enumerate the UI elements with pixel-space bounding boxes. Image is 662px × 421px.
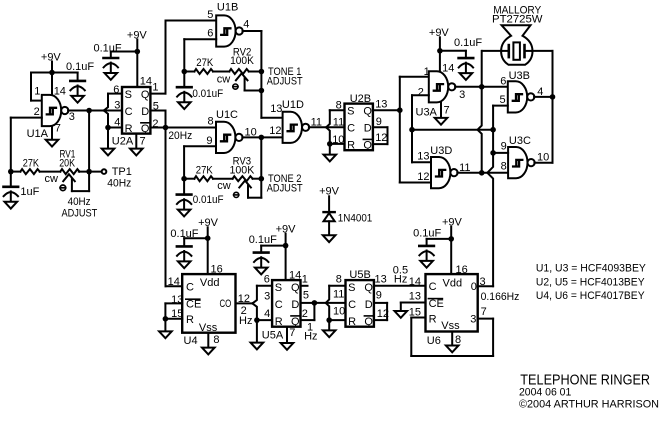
power +9V (U6) (442, 216, 463, 239)
svg-text:100K: 100K (230, 164, 255, 176)
svg-text:S: S (348, 282, 355, 294)
svg-text:0.01uF: 0.01uF (192, 88, 223, 100)
svg-text:D: D (141, 106, 149, 118)
wire U1C output pin10 to U1D pin12 (242, 136, 282, 138)
svg-text:C: C (275, 299, 283, 311)
svg-text:100K: 100K (230, 55, 254, 67)
svg-text:1: 1 (424, 66, 430, 78)
label U2B pin numbers (332, 93, 387, 146)
label TONE 1 ADJUST (267, 66, 303, 88)
wire U3C output pin10 (534, 162, 552, 164)
svg-text:Q: Q (363, 140, 372, 152)
capacitor 0.1uF (U6 supply) (413, 228, 441, 268)
svg-text:13: 13 (375, 274, 387, 286)
svg-text:11: 11 (333, 116, 344, 128)
svg-text:0.1uF: 0.1uF (66, 61, 94, 73)
svg-text:0.1uF: 0.1uF (94, 42, 122, 54)
svg-text:R: R (429, 314, 437, 326)
svg-text:14: 14 (442, 63, 454, 75)
label U1B pins (207, 1, 249, 39)
svg-text:C: C (125, 106, 133, 118)
svg-text:16: 16 (211, 264, 223, 276)
svg-text:20Hz: 20Hz (168, 130, 192, 142)
node +9V junction at U3A (437, 48, 443, 54)
svg-text:1: 1 (152, 81, 158, 93)
svg-text:0.1uF: 0.1uF (454, 37, 482, 49)
svg-text:U2B: U2B (350, 93, 371, 105)
wire U2B D to Qbar tie (373, 127, 388, 144)
node piezo left bottom junction (479, 170, 485, 176)
svg-text:3: 3 (69, 111, 75, 123)
wire U6 output 0 (pin3) 0.166Hz (478, 285, 493, 287)
flip-flop U2A (4013 half) (122, 87, 150, 135)
svg-text:C: C (347, 123, 355, 135)
wire U5A clock fork (S C R tie) (252, 286, 272, 320)
node U5A D junction 1Hz (312, 300, 318, 306)
wire 1Hz to U5B clock (314, 302, 345, 304)
svg-text:U2, U5 = HCF4013BEY: U2, U5 = HCF4013BEY (536, 277, 645, 289)
svg-text:8: 8 (336, 99, 342, 111)
wire U6 output 3 (pin7) reset loop (411, 318, 493, 357)
svg-text:ADJUST: ADJUST (62, 207, 98, 219)
svg-text:2: 2 (418, 86, 424, 98)
capacitor 0.01uF (tone1) (177, 72, 223, 110)
wire piezo right lead (532, 51, 553, 163)
node RV2 wiper junction (259, 88, 265, 94)
nand gate U3A (429, 71, 456, 102)
transducer MALLORY PT2725W (piezo horn) (492, 4, 543, 64)
ground U2B set-reset (324, 144, 337, 162)
svg-text:U3A: U3A (416, 107, 438, 119)
svg-text:CE: CE (429, 298, 444, 310)
wire U4 pin16 vdd (207, 238, 209, 274)
wire U3A pin2 input (412, 95, 429, 162)
svg-text:U1A: U1A (27, 128, 49, 140)
wire U5A D to Qbar tie (301, 303, 315, 320)
svg-text:R: R (275, 316, 283, 328)
ground U1A pin7 (46, 126, 59, 146)
svg-text:5: 5 (207, 9, 213, 21)
node tone2 out junction (259, 135, 265, 141)
capacitor 0.1uF (U2A supply) (94, 42, 122, 80)
svg-text:TP1: TP1 (112, 166, 132, 178)
svg-text:14: 14 (168, 276, 180, 288)
svg-text:R: R (125, 123, 133, 135)
wire U4 CO output 2Hz (236, 302, 253, 304)
svg-text:U1D: U1D (282, 99, 304, 111)
wire U2A clock fork (S C R tie) (104, 94, 122, 128)
label U1D pins (269, 99, 322, 137)
node crossnet junction (490, 127, 496, 133)
svg-text:13: 13 (375, 99, 387, 111)
svg-text:Q: Q (141, 89, 150, 101)
svg-text:0.1uF: 0.1uF (249, 234, 277, 246)
node piezo right junction (550, 94, 556, 100)
ground U4 pin8 (202, 333, 215, 355)
label U1A pins (27, 85, 75, 140)
svg-text:Q: Q (364, 282, 373, 294)
wire rail to 0.1uF (U2A) (111, 51, 138, 53)
node U5A R ground junction (254, 317, 260, 323)
label U5B pin numbers (333, 269, 389, 320)
node +9V junction at U1A (49, 70, 55, 76)
wire piezo left vertical with crossover jog (478, 51, 482, 173)
node U2B Q junction (397, 107, 403, 113)
svg-text:27K: 27K (196, 57, 214, 69)
svg-text:5: 5 (500, 94, 506, 106)
wire U2A D to Qbar tie (150, 111, 165, 128)
wire rail to 0.1uF (U4) (184, 237, 208, 239)
svg-text:CE: CE (186, 299, 201, 311)
op... nand gate U1A (Schmitt NAND) (42, 95, 69, 126)
svg-text:U3D: U3D (430, 145, 452, 157)
svg-text:1: 1 (34, 85, 40, 97)
wire U5B D to Qbar tie (374, 303, 387, 320)
svg-text:U2A: U2A (112, 136, 134, 148)
svg-text:Vdd: Vdd (443, 278, 463, 290)
svg-text:U4: U4 (184, 335, 198, 347)
svg-text:14: 14 (54, 85, 66, 97)
flip-flop U5A (4013 half) (272, 280, 300, 328)
svg-text:6: 6 (207, 28, 213, 40)
ground U5A pin7 (281, 327, 294, 350)
power +9V (U5A) (276, 223, 297, 245)
nand gate U3C (508, 147, 535, 178)
capacitor 0.01uF (tone2) (177, 179, 224, 217)
svg-text:10: 10 (332, 134, 344, 146)
svg-text:0.1uF: 0.1uF (413, 228, 441, 240)
wire U6 CE to ground (401, 303, 426, 312)
svg-text:U1C: U1C (216, 109, 238, 121)
resistor 27K (tone1) (184, 57, 229, 74)
svg-text:40Hz: 40Hz (107, 178, 131, 190)
capacitor 0.1uF (U1A supply) (66, 61, 94, 103)
wire rail to 0.1uF (U5A) (261, 245, 285, 247)
wire U5B Q 0.5Hz to U6 clock (374, 285, 426, 287)
potentiometer RV2 100K (217, 47, 262, 91)
wire U2B clock fork (S C R tie) (326, 110, 344, 144)
svg-text:U3C: U3C (509, 135, 531, 147)
node U4 R junction (163, 316, 169, 322)
ground U3A pin7 (435, 102, 448, 124)
svg-text:Q: Q (141, 123, 150, 135)
wire U4 CE R tie to ground (165, 303, 182, 331)
wire U1B output pin4 (243, 31, 283, 118)
wire rail to 0.1uF (U6) (427, 238, 452, 240)
capacitor 0.1uF (U3A supply) (454, 37, 482, 80)
wire U2A pin14 vdd (136, 52, 138, 88)
wire +9V rail to U1A pin1 loop (31, 73, 78, 101)
svg-text:Vss: Vss (441, 320, 460, 332)
label 1 Hz (304, 322, 317, 343)
svg-text:10: 10 (537, 151, 549, 163)
ground U6 CE (395, 311, 408, 318)
potentiometer RV3 100K (217, 155, 261, 197)
wire U2A Q to U1B pin5 (150, 21, 216, 94)
wire U3D output pin11 to U3C pin8 (457, 172, 508, 174)
svg-text:D: D (365, 299, 373, 311)
nand gate U1C (216, 122, 243, 153)
flip-flop U2B (4013 half) (345, 104, 373, 152)
svg-text:12: 12 (417, 171, 429, 183)
svg-text:13: 13 (270, 103, 282, 115)
svg-text:0.1uF: 0.1uF (170, 228, 198, 240)
svg-text:16: 16 (456, 264, 468, 276)
ground U2A set-reset (102, 128, 115, 156)
svg-text:cw: cw (217, 73, 231, 85)
label U3A pins (416, 63, 466, 119)
node U2A Qbar junction 20Hz (163, 125, 169, 131)
capacitor 0.1uF (U4 supply) (170, 228, 198, 268)
label TONE 2 ADJUST (267, 173, 303, 195)
svg-text:R: R (186, 314, 194, 326)
wire 20Hz down to U4 clock (166, 128, 183, 287)
svg-text:12: 12 (375, 132, 387, 144)
ground U5B set-reset (323, 320, 336, 337)
resistor 27K (tone2) (184, 164, 233, 181)
svg-text:U6: U6 (427, 335, 441, 347)
svg-text:U1, U3 = HCF4093BEY: U1, U3 = HCF4093BEY (536, 263, 647, 275)
svg-text:R: R (348, 316, 356, 328)
svg-text:13: 13 (417, 151, 429, 163)
node U5B R ground junction (326, 317, 332, 323)
ground U6 pin8 (446, 332, 459, 353)
svg-text:0.166Hz: 0.166Hz (481, 291, 520, 303)
svg-text:3: 3 (459, 89, 465, 101)
node RV2 top junction (259, 69, 265, 75)
svg-text:D: D (291, 299, 299, 311)
svg-text:Hz: Hz (239, 315, 252, 327)
svg-text:Q: Q (291, 316, 300, 328)
node +9V junction at U4 (205, 235, 211, 241)
potentiometer RV1 20K (45, 148, 102, 191)
svg-text:8: 8 (208, 115, 214, 127)
counter U4 (4017) (182, 274, 235, 334)
svg-text:9: 9 (206, 135, 212, 147)
label U2A pin numbers (112, 75, 159, 147)
svg-text:D: D (364, 123, 372, 135)
label U6 pin numbers (409, 264, 487, 347)
svg-text:2004 06 01: 2004 06 01 (519, 386, 571, 398)
label 2 Hz (239, 305, 252, 327)
svg-text:U1B: U1B (217, 1, 238, 13)
ground U4 CE R (159, 331, 172, 338)
svg-text:5: 5 (303, 290, 309, 302)
node tone1 RC junction (182, 69, 188, 75)
ground U5A set-reset (251, 320, 264, 349)
diode 1N4001 (324, 212, 373, 235)
svg-text:14: 14 (140, 75, 152, 87)
power +9V (U3A) (429, 27, 450, 51)
node +9V junction at U2A (135, 49, 141, 55)
wire netB vertical with crossover jog (487, 106, 493, 287)
wire piezo left lead (482, 50, 501, 52)
wire rail to 0.1uF (U3A) (440, 50, 466, 52)
nand gate U3B (508, 81, 535, 112)
node piezo left junction (479, 84, 485, 90)
label U3C pins (501, 135, 550, 173)
wire U5A pin14 vdd (285, 246, 287, 281)
resistor 27K (U1A) (11, 157, 61, 174)
svg-text:2: 2 (34, 106, 40, 118)
svg-text:40Hz: 40Hz (68, 196, 91, 208)
svg-text:7: 7 (140, 135, 146, 147)
wire U3B pin5 input (493, 105, 508, 107)
svg-text:Q: Q (364, 316, 373, 328)
svg-text:U5B: U5B (349, 269, 370, 281)
power +9V (diode) (319, 186, 340, 212)
svg-text:1: 1 (302, 274, 308, 286)
ground diode (323, 235, 336, 242)
node U2A R ground junction (105, 125, 111, 131)
svg-text:8: 8 (336, 274, 342, 286)
svg-text:27K: 27K (23, 157, 40, 169)
label U3D pins (417, 145, 470, 183)
svg-text:Q: Q (363, 106, 372, 118)
node U3A pin2 branch (409, 127, 415, 133)
wire feedback vertical to RV1 (88, 111, 90, 172)
svg-text:9: 9 (376, 116, 382, 128)
node U1A output branch (86, 108, 92, 114)
wire U1A pin2 input (11, 117, 42, 119)
svg-text:0: 0 (471, 281, 477, 293)
svg-text:6: 6 (264, 274, 270, 286)
svg-text:4: 4 (243, 18, 249, 30)
svg-text:8: 8 (455, 334, 461, 346)
counter U6 (4017) (426, 274, 478, 332)
svg-text:20K: 20K (59, 158, 75, 170)
svg-text:8: 8 (501, 161, 507, 173)
node +9V junction at U6 (448, 236, 454, 242)
svg-text:2: 2 (302, 308, 308, 320)
node RV1 wiper junction (86, 169, 92, 175)
label U1C pins (206, 109, 256, 147)
svg-text:S: S (125, 89, 132, 101)
wire U1D output pin11 to U2B clock (309, 126, 345, 128)
svg-text:1N4001: 1N4001 (338, 213, 373, 225)
svg-text:9: 9 (501, 140, 507, 152)
svg-text:8: 8 (213, 334, 219, 346)
wire U5B clock fork (S C R tie) (326, 286, 346, 320)
wire pin2 down to RC node (10, 118, 12, 172)
wire U3A pin14 vdd (439, 51, 441, 71)
svg-text:U4, U6 = HCF4017BEY: U4, U6 = HCF4017BEY (536, 290, 645, 302)
svg-text:C: C (429, 281, 437, 293)
node U3C pin9 junction (490, 150, 496, 156)
svg-text:ADJUST: ADJUST (267, 182, 303, 194)
svg-text:cw: cw (217, 180, 231, 192)
wire U3A output pin3 to U3B pin6 (455, 86, 508, 88)
label U3B pins (500, 70, 544, 106)
capacitor 1uF (U1A input) (4, 172, 40, 209)
ground U2A pin7 (130, 134, 143, 156)
test point TP1 (102, 166, 132, 189)
wire U3C pin9 input (493, 152, 508, 154)
svg-text:1uF: 1uF (20, 186, 39, 198)
svg-text:C: C (348, 299, 356, 311)
svg-text:Hz: Hz (304, 331, 317, 343)
wire U1A output pin3 (68, 110, 122, 112)
node U2B R ground junction (327, 141, 333, 147)
svg-text:S: S (275, 282, 282, 294)
label 0.5 Hz (393, 265, 408, 286)
svg-text:0.01uF: 0.01uF (193, 194, 224, 206)
nand gate U1D (283, 112, 310, 143)
svg-text:PT2725W: PT2725W (492, 13, 543, 25)
svg-text:13: 13 (409, 291, 421, 303)
svg-text:©2004 ARTHUR HARRISON: ©2004 ARTHUR HARRISON (519, 398, 659, 410)
nand gate U1B (216, 15, 243, 46)
svg-text:9: 9 (376, 290, 382, 302)
svg-text:27K: 27K (196, 164, 214, 176)
wire U1C pin9 feedback (184, 146, 216, 178)
svg-text:CO: CO (220, 298, 232, 310)
svg-text:+9V: +9V (442, 216, 463, 228)
svg-text:10: 10 (333, 306, 345, 318)
svg-text:3: 3 (264, 291, 270, 303)
node tone2 RC junction (181, 176, 187, 182)
svg-text:7: 7 (55, 123, 61, 135)
node RV3 top junction (259, 176, 265, 182)
svg-text:14: 14 (409, 276, 421, 288)
svg-text:C: C (186, 282, 194, 294)
wire RV3 vertical (260, 137, 262, 197)
svg-text:Vdd: Vdd (200, 277, 220, 289)
wire U3D pin13 input (412, 161, 431, 163)
svg-text:Hz: Hz (394, 274, 407, 286)
svg-text:6: 6 (500, 76, 506, 88)
svg-text:ADJUST: ADJUST (267, 75, 303, 87)
svg-text:3: 3 (114, 99, 120, 111)
svg-text:R: R (347, 140, 355, 152)
svg-text:cw: cw (45, 173, 59, 185)
wire U2B Q pin13 to U3 gates (373, 109, 400, 111)
wire U6 pin16 vdd (450, 239, 452, 274)
label U4 pin numbers (168, 264, 250, 347)
capacitor 0.1uF (U5A supply) (249, 234, 277, 275)
wire vertical U3A pin1 / U3D pin12 (400, 77, 431, 183)
power +9V (U4) (198, 217, 219, 238)
nand gate U3D (431, 157, 458, 188)
svg-text:14: 14 (289, 270, 301, 282)
svg-text:4: 4 (264, 308, 270, 320)
svg-text:3: 3 (470, 313, 476, 325)
power +9V (U2A) (127, 29, 148, 51)
label parts list (536, 263, 647, 303)
svg-text:Q: Q (291, 282, 300, 294)
svg-text:11: 11 (333, 288, 344, 300)
svg-text:U5A: U5A (262, 330, 284, 342)
svg-text:U3B: U3B (509, 70, 530, 82)
node +9V junction at U5A (283, 243, 289, 249)
wire pin14 U1A vdd (51, 73, 53, 95)
svg-text:7: 7 (481, 306, 487, 318)
power +9V (U1A) (41, 52, 62, 73)
wire U3B output pin4 (534, 96, 552, 98)
wire crossnet to U3B5 U3C9 (412, 129, 493, 131)
wire U5A Q stub (301, 285, 308, 287)
label U5A pin numbers (262, 270, 309, 342)
svg-text:7: 7 (444, 104, 450, 116)
label 40Hz ADJUST (62, 196, 98, 219)
node RC input (8, 169, 14, 175)
svg-text:7: 7 (289, 327, 295, 339)
svg-text:12: 12 (269, 125, 281, 137)
svg-text:S: S (347, 106, 354, 118)
wire U1B pin6 feedback (184, 39, 216, 71)
wire 20Hz to U1C pin8 (166, 127, 217, 129)
flip-flop U5B (4013 half) (346, 280, 374, 328)
